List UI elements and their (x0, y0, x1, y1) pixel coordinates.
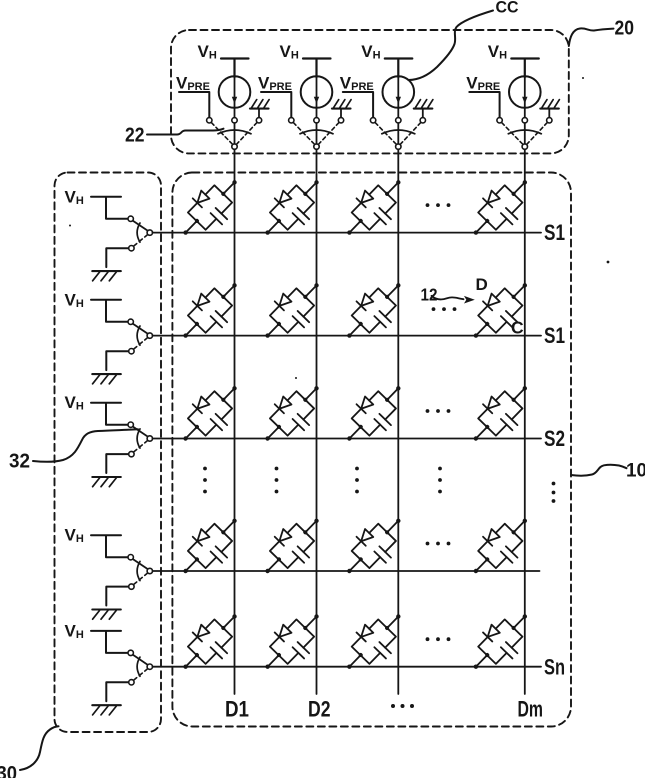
leader line for label 20 (569, 28, 614, 46)
cell frame wires (188, 391, 232, 435)
svg-text:VH: VH (65, 621, 84, 641)
leader line for label CC to current source of column driver 3 (409, 11, 494, 81)
row driver 3: ground symbol (92, 477, 121, 487)
cell frame wires (188, 524, 232, 568)
cell wire stub to column line (387, 182, 398, 194)
row driver 4: switch arc (137, 561, 140, 580)
svg-text:VH: VH (65, 290, 84, 310)
cell frame wires (270, 185, 314, 229)
cell wire stub to row line (349, 221, 360, 233)
svg-text:VPRE: VPRE (258, 74, 292, 94)
svg-text:VH: VH (198, 42, 217, 62)
cell wire stub to column line (387, 285, 398, 297)
column driver 3: switch arc (382, 130, 415, 134)
diode D (275, 396, 292, 413)
row driver 1: switch pole (147, 230, 152, 235)
row driver 5: switch contact (VH side) (128, 650, 133, 655)
row driver 2: VH supply rail (91, 300, 128, 322)
row driver 3: switch arc (137, 429, 140, 448)
cell wire stub to column line (223, 616, 234, 628)
cell wire stub to column line (514, 388, 525, 400)
row driver 3: switch contact (VH side) (128, 422, 133, 427)
row driver 1: switch arc (137, 223, 140, 242)
row driver 2: switch pole (147, 333, 152, 338)
row driver 2: ground symbol (92, 374, 121, 384)
svg-text:VH: VH (65, 393, 84, 413)
svg-text:30: 30 (0, 762, 17, 778)
junction dots (473, 282, 528, 338)
column driver 2: switch arc (300, 130, 333, 134)
capacitor C (211, 311, 228, 327)
column driver 1: current source CS (circle with down arrow) (219, 76, 251, 117)
junction dots (182, 613, 237, 669)
diode D (193, 624, 210, 641)
memory cell row5-col1 (diode + capacitor) (171, 602, 251, 683)
junction dots (346, 179, 401, 235)
svg-text:VH: VH (488, 42, 507, 62)
memory cell row4-col3 (diode + capacitor) (334, 506, 414, 587)
column driver 4: switch throw (dashed) to ground contact (527, 123, 547, 145)
cell frame wires (270, 391, 314, 435)
column driver 3: VH supply rail (385, 59, 413, 78)
row driver 5: switch pole (147, 664, 152, 669)
column driver 4: switch contact (current source side) (522, 118, 527, 123)
leader line for label 30 (20, 726, 59, 770)
column driver 1: switch arc (218, 130, 251, 134)
junction dots (264, 613, 319, 669)
capacitor C (211, 414, 228, 430)
svg-text:S2: S2 (544, 426, 565, 451)
column driver 1: VH supply rail (221, 59, 249, 78)
cell wire stub to row line (186, 559, 197, 571)
svg-text:S1: S1 (544, 323, 565, 348)
row driver 4: ground wire (106, 587, 128, 606)
column driver 1: switch contact (VPRE side) (207, 118, 212, 123)
diode D (357, 293, 374, 310)
cell wire stub to row line (476, 221, 487, 233)
cell wire stub to column line (305, 521, 316, 533)
column driver 1: switch contact (ground side) (256, 118, 261, 123)
svg-text:12: 12 (421, 285, 438, 305)
cell wire stub to column line (223, 182, 234, 194)
diode D (483, 624, 500, 641)
row line (unlabeled S row) (horizontal select line) (153, 570, 540, 572)
column driver 2: switch pole (314, 144, 319, 149)
svg-text:22: 22 (125, 125, 145, 147)
memory cell row5-col3 (diode + capacitor) (334, 602, 414, 683)
column driver 3: switch pole (396, 144, 401, 149)
capacitor C (293, 311, 310, 327)
memory cell row4-col4 (diode + capacitor) (461, 506, 541, 587)
capacitor C (211, 546, 228, 562)
row driver 3: switch contact (ground side) (129, 451, 134, 456)
cell wire stub to column line (305, 388, 316, 400)
row driver 5: switch throw (dashed) to ground contact (134, 669, 148, 680)
capacitor C (501, 311, 518, 327)
svg-text:10: 10 (626, 460, 645, 482)
cell frame wires (352, 391, 396, 435)
column driver 1: ground symbol (250, 100, 269, 118)
column driver 1: switch throw (dashed) to VPRE contact (211, 123, 232, 145)
cell wire stub to row line (476, 324, 487, 336)
column driver 3: switch wiper (solid, to current source) (397, 123, 399, 144)
diode D (357, 529, 374, 546)
row driver 5: ground wire (106, 682, 128, 701)
column driver 4: ground symbol (540, 100, 559, 118)
junction dots (473, 518, 528, 574)
capacitor C (293, 546, 310, 562)
row driver 4: ground symbol (92, 610, 121, 620)
junction dots (182, 518, 237, 574)
leader line for label 32 to row driver 3 switch (33, 429, 138, 462)
column driver 4: switch pole (522, 144, 527, 149)
svg-text:VH: VH (361, 42, 380, 62)
junction dots (182, 282, 237, 338)
column driver 4: switch arc (508, 130, 541, 134)
row driver 3: switch wiper (solid, to VH) (133, 427, 148, 437)
cell wire stub to column line (305, 182, 316, 194)
row line S2 (horizontal select line) (153, 438, 541, 440)
svg-text:VPRE: VPRE (176, 74, 210, 94)
cell wire stub to row line (349, 427, 360, 439)
column line D2 (vertical data line) (316, 149, 318, 694)
column driver 2: ground symbol (332, 100, 351, 118)
cell frame wires (478, 619, 522, 663)
diode D (275, 190, 292, 207)
column line D3 (vertical data line) (397, 149, 399, 694)
column driver 1: switch pole (232, 144, 237, 149)
dashed block 30 (row driver block) (55, 173, 162, 733)
memory cell row3-col3 (diode + capacitor) (334, 374, 414, 455)
cell wire stub to column line (387, 521, 398, 533)
cell wire stub to column line (305, 616, 316, 628)
diode D (193, 396, 210, 413)
diode D (483, 396, 500, 413)
capacitor C (374, 642, 391, 658)
memory cell row2-col1 (diode + capacitor) (171, 271, 251, 352)
memory cell row4-col2 (diode + capacitor) (253, 506, 333, 587)
cell wire stub to column line (514, 521, 525, 533)
column driver 2: switch contact (current source side) (314, 118, 319, 123)
column driver 3: switch throw (dashed) to ground contact (400, 123, 420, 145)
diode D (193, 529, 210, 546)
column driver 4: switch contact (VPRE side) (497, 118, 502, 123)
leader line for label 10 (571, 465, 627, 476)
cell frame wires (478, 288, 522, 332)
cell wire stub to column line (387, 388, 398, 400)
diode D (357, 190, 374, 207)
cell wire stub to column line (514, 616, 525, 628)
cell wire stub to row line (349, 324, 360, 336)
row driver 1: switch wiper (solid, to VH) (133, 221, 148, 231)
capacitor C (293, 414, 310, 430)
memory cell row2-col2 (diode + capacitor) (253, 271, 333, 352)
diode D (483, 190, 500, 207)
arrow from label 12 to memory cell (432, 296, 475, 304)
svg-text:20: 20 (615, 18, 635, 40)
cell wire stub to row line (268, 655, 279, 667)
cell wire stub to column line (305, 285, 316, 297)
row driver 3: switch pole (147, 436, 152, 441)
svg-text:CC: CC (496, 0, 519, 17)
column driver 2: VPRE wire (261, 92, 291, 118)
junction dots (346, 613, 401, 669)
cell frame wires (270, 288, 314, 332)
column driver 2: VH supply rail (303, 59, 331, 78)
row driver 5: switch arc (137, 657, 140, 676)
cell wire stub to row line (186, 655, 197, 667)
capacitor C (374, 546, 391, 562)
column driver 2: current source CS (circle with down arrow) (301, 76, 333, 117)
memory cell row5-col2 (diode + capacitor) (253, 602, 333, 683)
column driver 3: switch contact (current source side) (396, 118, 401, 123)
cell frame wires (188, 288, 232, 332)
diode D (275, 293, 292, 310)
cell wire stub to column line (387, 616, 398, 628)
svg-text:C: C (511, 318, 524, 338)
memory cell row3-col1 (diode + capacitor) (171, 374, 251, 455)
memory cell row2-col3 (diode + capacitor) (334, 271, 414, 352)
row driver 3: ground wire (106, 454, 128, 473)
diode D (275, 624, 292, 641)
svg-text:D2: D2 (308, 697, 331, 722)
cell wire stub to row line (476, 655, 487, 667)
memory cell row4-col1 (diode + capacitor) (171, 506, 251, 587)
column driver 2: switch throw (dashed) to VPRE contact (293, 123, 314, 145)
junction dots (264, 385, 319, 441)
cell wire stub to row line (349, 655, 360, 667)
capacitor C (211, 642, 228, 658)
capacitor C (374, 311, 391, 327)
column driver 4: VH supply rail (511, 59, 539, 78)
diode D (193, 293, 210, 310)
diode D (483, 529, 500, 546)
column driver 3: switch contact (VPRE side) (370, 118, 375, 123)
cell frame wires (352, 524, 396, 568)
column driver 1: switch throw (dashed) to ground contact (237, 123, 257, 145)
ellipsis dots (horizontal) in each row between D3 and Dm (426, 203, 451, 207)
capacitor C (501, 208, 518, 224)
junction dots (182, 179, 237, 235)
junction dots (473, 613, 528, 669)
junction dots (473, 179, 528, 235)
row driver 5: VH supply rail (91, 631, 128, 653)
cell wire stub to row line (476, 559, 487, 571)
junction dots (264, 179, 319, 235)
cell frame wires (270, 524, 314, 568)
row driver 4: switch contact (VH side) (128, 555, 133, 560)
row line S1 (horizontal select line) (153, 232, 541, 234)
ellipsis dots (vertical) at right edge of array (552, 482, 556, 503)
diode D (483, 293, 500, 310)
memory cell row1-col3 (diode + capacitor) (334, 168, 414, 249)
cell frame wires (478, 185, 522, 229)
cell wire stub to column line (514, 182, 525, 194)
column driver 3: switch throw (dashed) to VPRE contact (375, 123, 396, 145)
column driver 3: ground symbol (414, 100, 433, 118)
cell frame wires (352, 619, 396, 663)
svg-text:VPRE: VPRE (466, 74, 500, 94)
cell wire stub to row line (186, 427, 197, 439)
ellipsis dots at bottom between D2 and Dm labels (391, 704, 414, 708)
column driver 4: switch throw (dashed) to VPRE contact (502, 123, 523, 145)
capacitor C (293, 208, 310, 224)
svg-text:Sn: Sn (544, 654, 565, 679)
cell wire stub to column line (223, 521, 234, 533)
dashed block 10 (memory cell array block) (172, 173, 571, 727)
row driver 4: switch contact (ground side) (129, 584, 134, 589)
row driver 2: switch throw (dashed) to ground contact (134, 338, 148, 349)
memory cell row5-col4 (diode + capacitor) (461, 602, 541, 683)
row driver 4: VH supply rail (91, 535, 128, 557)
junction dots (346, 518, 401, 574)
diode D (193, 190, 210, 207)
row driver 2: switch wiper (solid, to VH) (133, 324, 148, 334)
capacitor C (501, 414, 518, 430)
cell wire stub to column line (223, 285, 234, 297)
column driver 4: VPRE wire (469, 92, 499, 118)
row driver 2: switch contact (VH side) (128, 319, 133, 324)
dashed block 20 (column precharge/drive circuit block) (171, 30, 569, 153)
row driver 1: ground wire (106, 248, 128, 267)
capacitor C (293, 642, 310, 658)
column driver 3: VPRE wire (343, 92, 373, 118)
cell wire stub to row line (268, 221, 279, 233)
column driver 2: switch throw (dashed) to ground contact (319, 123, 339, 145)
capacitor C (374, 414, 391, 430)
cell wire stub to column line (223, 388, 234, 400)
junction dots (346, 385, 401, 441)
cell frame wires (188, 185, 232, 229)
cell frame wires (352, 288, 396, 332)
capacitor C (501, 546, 518, 562)
capacitor C (501, 642, 518, 658)
cell wire stub to row line (268, 427, 279, 439)
row driver 3: VH supply rail (91, 403, 128, 425)
cell frame wires (188, 619, 232, 663)
diode D (357, 624, 374, 641)
column driver 4: current source CS (circle with down arrow) (509, 76, 541, 117)
column driver 3: switch contact (ground side) (420, 118, 425, 123)
memory cell row3-col2 (diode + capacitor) (253, 374, 333, 455)
column driver 2: switch contact (VPRE side) (289, 118, 294, 123)
row driver 1: VH supply rail (91, 197, 128, 219)
svg-text:VH: VH (65, 526, 84, 546)
row driver 4: switch wiper (solid, to VH) (133, 559, 148, 569)
cell frame wires (270, 619, 314, 663)
cell wire stub to row line (268, 559, 279, 571)
cell wire stub to row line (476, 427, 487, 439)
row driver 3: switch throw (dashed) to ground contact (134, 441, 148, 452)
svg-text:D1: D1 (225, 697, 249, 722)
column driver 3: current source CS (circle with down arrow) (383, 76, 415, 117)
memory cell row1-col4 (diode + capacitor) (461, 168, 541, 249)
junction dots (264, 518, 319, 574)
row driver 1: switch contact (VH side) (128, 216, 133, 221)
memory cell row1-col1 (diode + capacitor) (171, 168, 251, 249)
cell wire stub to row line (186, 221, 197, 233)
row driver 4: switch pole (147, 568, 152, 573)
diode D (357, 396, 374, 413)
diode D (275, 529, 292, 546)
column driver 4: switch wiper (solid, to current source) (524, 123, 526, 144)
junction dots (473, 385, 528, 441)
row driver 1: switch throw (dashed) to ground contact (134, 235, 148, 246)
svg-text:S1: S1 (544, 220, 565, 245)
row driver 2: ground wire (106, 351, 128, 370)
row driver 2: switch arc (137, 326, 140, 345)
svg-text:D: D (476, 275, 488, 294)
cell wire stub to row line (268, 324, 279, 336)
svg-text:VH: VH (280, 42, 299, 62)
column line Dm (vertical data line) (524, 149, 526, 694)
column driver 1: switch contact (current source side) (232, 118, 237, 123)
memory cell row2-col4 (diode + capacitor) (461, 271, 541, 352)
column driver 4: switch contact (ground side) (547, 118, 552, 123)
svg-text:32: 32 (9, 451, 30, 473)
cell wire stub to row line (186, 324, 197, 336)
row line Sn (horizontal select line) (153, 666, 541, 668)
row driver 5: switch wiper (solid, to VH) (133, 655, 148, 665)
svg-text:VPRE: VPRE (340, 74, 374, 94)
capacitor C (211, 208, 228, 224)
junction dots (346, 282, 401, 338)
junction dots (264, 282, 319, 338)
cell frame wires (478, 391, 522, 435)
memory cell row1-col2 (diode + capacitor) (253, 168, 333, 249)
column line D1 (vertical data line) (234, 149, 236, 694)
column driver 1: switch wiper (solid, to current source) (234, 123, 236, 144)
cell wire stub to column line (514, 285, 525, 297)
svg-text:VH: VH (65, 187, 84, 207)
leader line for label 22 to column driver 1 switch (147, 129, 224, 135)
cell frame wires (478, 524, 522, 568)
row driver 4: switch throw (dashed) to ground contact (134, 573, 148, 584)
junction dots (182, 385, 237, 441)
scan specks (noise dots present in original) (69, 77, 609, 379)
row driver 2: switch contact (ground side) (129, 349, 134, 354)
memory cell row3-col4 (diode + capacitor) (461, 374, 541, 455)
ellipsis dots (vertical) between row S2 and next row (203, 467, 207, 494)
cell frame wires (352, 185, 396, 229)
row driver 5: switch contact (ground side) (129, 680, 134, 685)
row line S1 (horizontal select line) (153, 335, 541, 337)
column driver 2: switch contact (ground side) (338, 118, 343, 123)
column driver 2: switch wiper (solid, to current source) (316, 123, 318, 144)
capacitor C (374, 208, 391, 224)
column driver 1: VPRE wire (179, 92, 209, 118)
row driver 1: ground symbol (92, 271, 121, 281)
cell wire stub to row line (349, 559, 360, 571)
row driver 1: switch contact (ground side) (129, 246, 134, 251)
svg-text:Dm: Dm (518, 697, 544, 722)
row driver 5: ground symbol (92, 705, 121, 715)
